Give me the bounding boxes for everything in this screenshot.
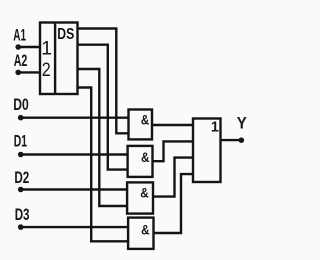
svg-text:D3: D3 <box>15 206 30 224</box>
node D2 <box>18 187 24 193</box>
node Y <box>239 137 245 143</box>
svg-text:1: 1 <box>211 120 219 136</box>
AND gate U4 <box>127 182 153 213</box>
node D1 <box>18 152 24 158</box>
wire A2 to decoder <box>18 71 40 73</box>
node D3 <box>18 224 24 230</box>
wire decoder output 2 to AND U3 <box>78 45 128 170</box>
wire D3 to AND U5 <box>21 226 128 228</box>
wire D2 to AND U4 <box>21 188 127 190</box>
svg-text:&: & <box>141 149 150 165</box>
svg-text:Y: Y <box>237 113 248 132</box>
wire AND U4 output to OR U6 <box>153 158 193 197</box>
wire D1 to AND U3 <box>21 153 128 155</box>
wire decoder output 4 to AND U5 <box>78 88 129 242</box>
svg-text:&: & <box>141 111 150 127</box>
wire AND U2 output to OR U6 <box>152 124 193 126</box>
AND gate U2 <box>129 110 153 140</box>
decoder U1 body <box>40 23 78 95</box>
OR gate U6 <box>193 119 221 183</box>
wire AND U3 output to OR U6 <box>153 141 194 161</box>
wire A1 to decoder <box>18 46 40 48</box>
svg-text:D2: D2 <box>14 169 29 187</box>
svg-text:2: 2 <box>42 59 51 81</box>
wire decoder output 1 to AND U2 <box>78 29 129 134</box>
wire D0 to AND U2 <box>21 116 129 118</box>
svg-text:1: 1 <box>41 37 52 59</box>
AND gate U3 <box>128 146 153 177</box>
AND gate U5 <box>128 218 153 249</box>
svg-text:D0: D0 <box>13 96 29 114</box>
svg-text:A2: A2 <box>14 52 28 70</box>
svg-text:A1: A1 <box>13 26 26 44</box>
svg-text:&: & <box>140 184 149 200</box>
svg-text:&: & <box>141 222 150 238</box>
node A2 <box>15 70 21 76</box>
svg-text:D1: D1 <box>14 133 27 151</box>
svg-text:DS: DS <box>57 26 74 43</box>
wire AND U5 output to OR U6 <box>154 174 194 233</box>
node A1 <box>15 44 21 50</box>
wire Y output <box>221 139 242 141</box>
node D0 <box>18 115 24 121</box>
wire decoder output 3 to AND U4 <box>78 69 128 206</box>
